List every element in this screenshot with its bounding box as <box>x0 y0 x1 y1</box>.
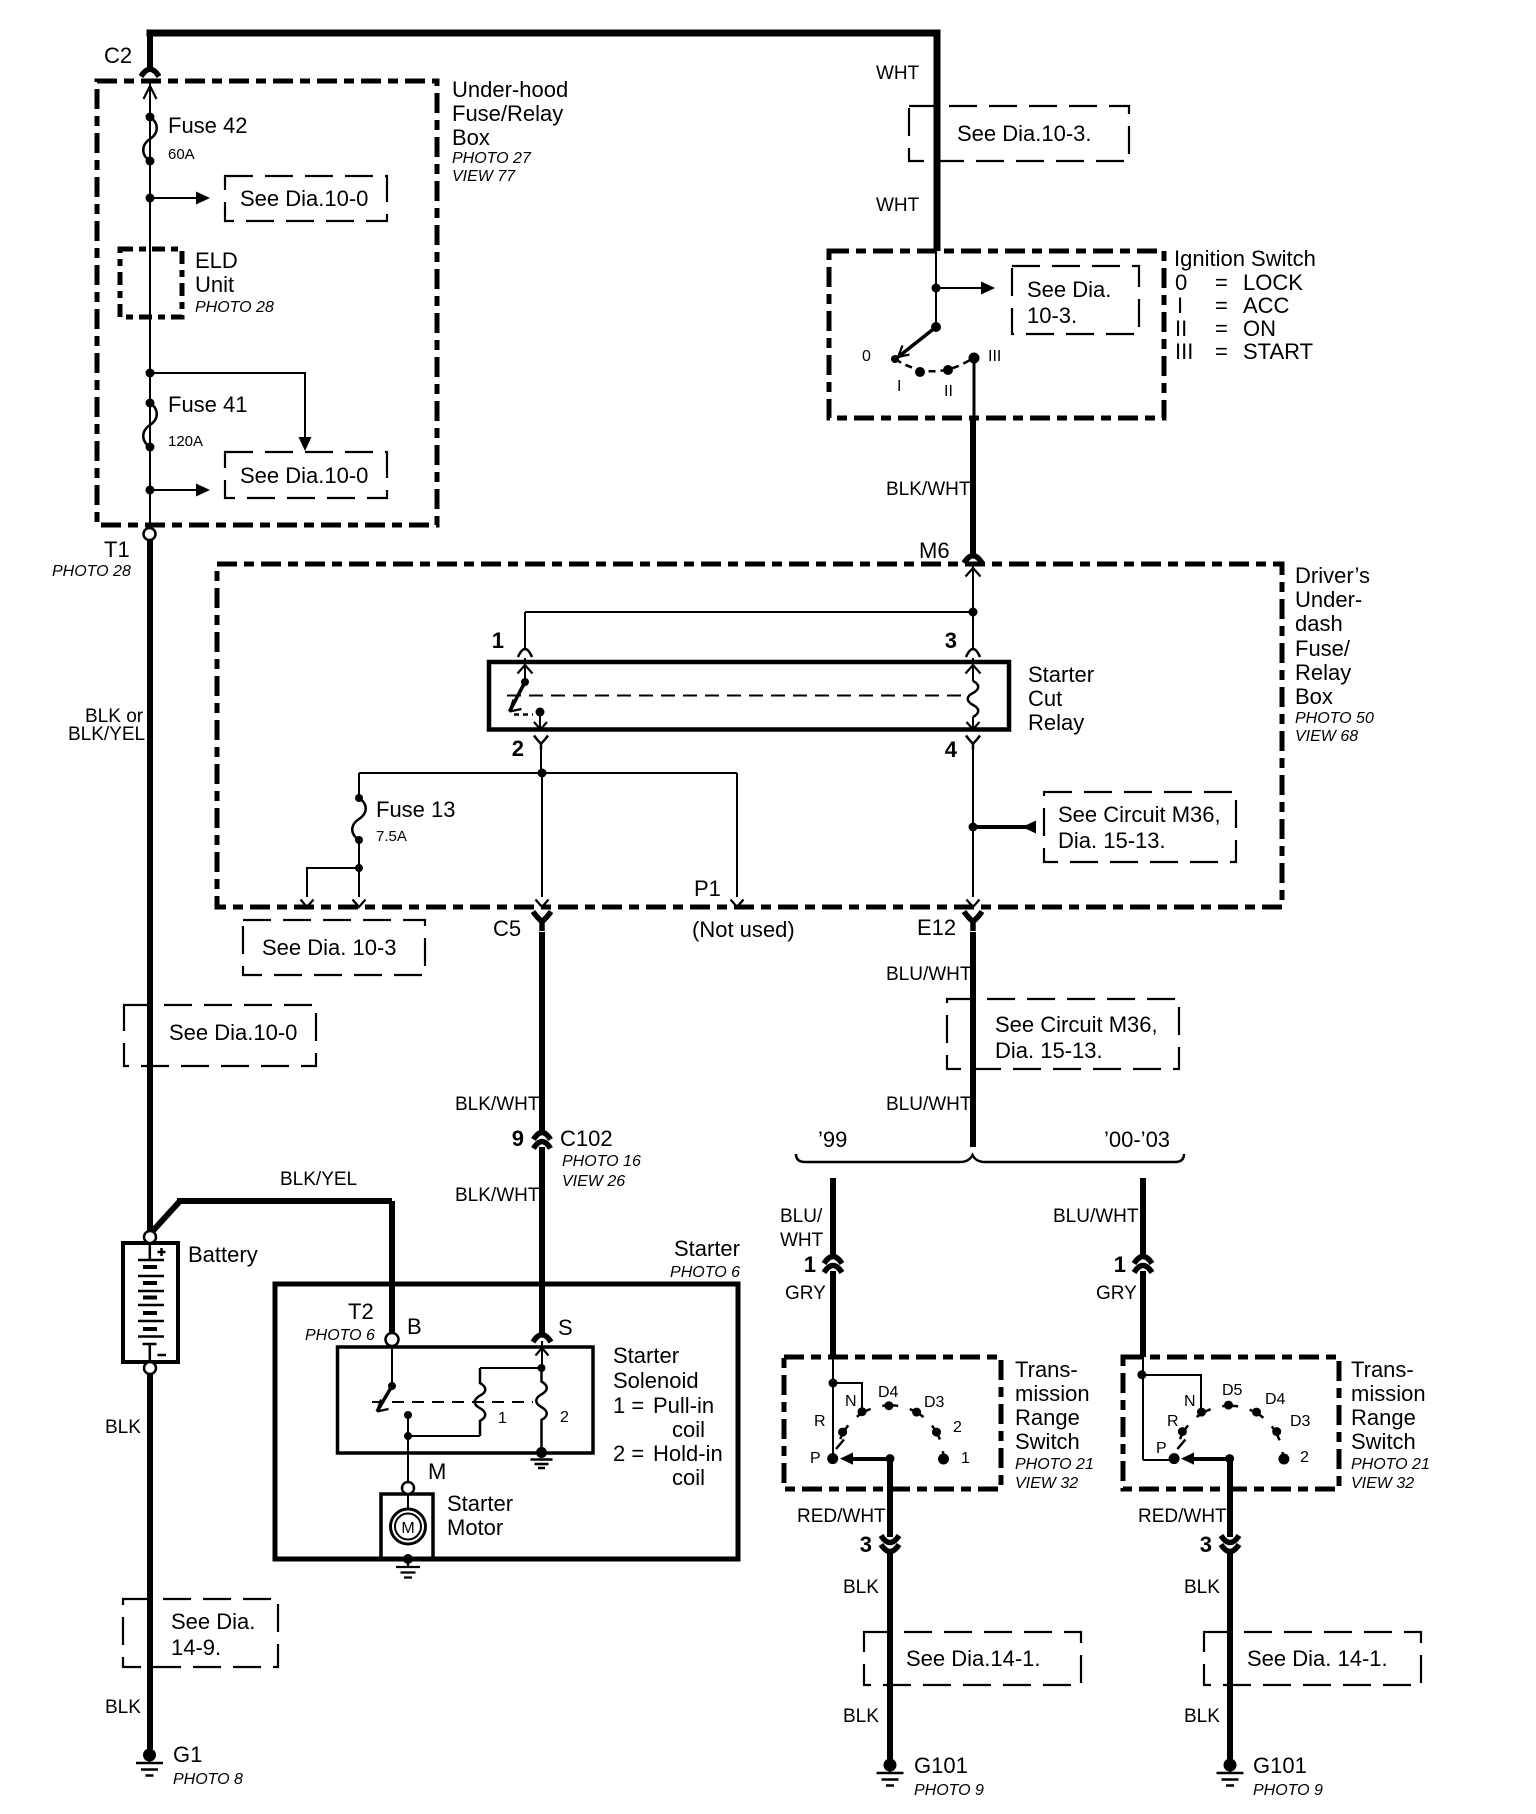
svg-text:G1: G1 <box>173 1742 202 1767</box>
svg-text:BLU/WHT: BLU/WHT <box>1053 1206 1139 1227</box>
svg-text:Unit: Unit <box>195 272 234 297</box>
svg-text:Range: Range <box>1351 1405 1416 1430</box>
svg-text:VIEW 68: VIEW 68 <box>1295 728 1358 745</box>
svg-text:Under-hood: Under-hood <box>452 77 568 102</box>
svg-text:PHOTO 9: PHOTO 9 <box>914 1782 984 1799</box>
svg-text:D3: D3 <box>1290 1413 1311 1430</box>
svg-text:Fuse 42: Fuse 42 <box>168 113 248 138</box>
svg-text:See Dia. 14-1.: See Dia. 14-1. <box>1247 1646 1388 1671</box>
svg-text:I: I <box>1177 293 1183 318</box>
svg-text:C2: C2 <box>104 43 132 68</box>
svg-text:D5: D5 <box>1222 1382 1243 1399</box>
svg-text:BLK: BLK <box>105 1417 141 1438</box>
svg-text:Fuse 41: Fuse 41 <box>168 392 248 417</box>
svg-text:9: 9 <box>512 1126 524 1151</box>
svg-text:Starter: Starter <box>674 1236 740 1261</box>
svg-text:M: M <box>401 1520 414 1537</box>
svg-text:GRY: GRY <box>1096 1283 1137 1304</box>
svg-text:Switch: Switch <box>1015 1429 1080 1454</box>
svg-text:P1: P1 <box>694 876 721 901</box>
svg-text:RED/WHT: RED/WHT <box>1138 1506 1227 1527</box>
svg-text:D4: D4 <box>878 1384 899 1401</box>
svg-text:R: R <box>814 1413 826 1430</box>
svg-text:Box: Box <box>452 125 490 150</box>
svg-text:VIEW 32: VIEW 32 <box>1015 1475 1078 1492</box>
svg-text:PHOTO 6: PHOTO 6 <box>670 1264 740 1281</box>
svg-text:PHOTO 21: PHOTO 21 <box>1015 1456 1094 1473</box>
svg-text:I: I <box>897 378 901 395</box>
svg-text:Starter: Starter <box>1028 662 1094 687</box>
svg-text:1: 1 <box>1114 1252 1126 1277</box>
svg-text:Relay: Relay <box>1295 660 1351 685</box>
svg-text:Driver’s: Driver’s <box>1295 563 1370 588</box>
svg-text:2: 2 <box>1300 1449 1309 1466</box>
svg-text:B: B <box>407 1314 422 1339</box>
svg-text:G101: G101 <box>914 1753 968 1778</box>
svg-text:See Dia.10-3.: See Dia.10-3. <box>957 121 1092 146</box>
svg-text:Starter: Starter <box>447 1491 513 1516</box>
svg-text:120A: 120A <box>168 433 203 450</box>
svg-text:BLK/WHT: BLK/WHT <box>886 479 971 500</box>
svg-text:II: II <box>1175 316 1187 341</box>
svg-text:P: P <box>1156 1440 1167 1457</box>
svg-text:Relay: Relay <box>1028 710 1084 735</box>
svg-text:Starter: Starter <box>613 1343 679 1368</box>
svg-text:See Dia.10-0: See Dia.10-0 <box>240 463 368 488</box>
svg-text:P: P <box>810 1450 821 1467</box>
svg-text:=: = <box>1215 270 1228 295</box>
svg-text:GRY: GRY <box>785 1283 826 1304</box>
svg-text:See Circuit M36,: See Circuit M36, <box>1058 802 1221 827</box>
svg-text:BLK/WHT: BLK/WHT <box>455 1185 540 1206</box>
svg-text:2 =: 2 = <box>613 1441 644 1466</box>
svg-text:D3: D3 <box>924 1394 945 1411</box>
svg-text:14-9.: 14-9. <box>171 1635 221 1660</box>
svg-text:See Dia.10-0: See Dia.10-0 <box>240 186 368 211</box>
svg-text:ACC: ACC <box>1243 293 1290 318</box>
svg-text:Cut: Cut <box>1028 686 1062 711</box>
svg-text:Fuse 13: Fuse 13 <box>376 797 456 822</box>
svg-text:BLK: BLK <box>1184 1577 1220 1598</box>
svg-text:BLU/: BLU/ <box>780 1206 823 1227</box>
svg-text:mission: mission <box>1351 1381 1426 1406</box>
svg-text:Dia. 15-13.: Dia. 15-13. <box>995 1038 1103 1063</box>
svg-text:BLK: BLK <box>105 1697 141 1718</box>
svg-text:Under-: Under- <box>1295 587 1362 612</box>
svg-text:N: N <box>845 1393 857 1410</box>
svg-text:2: 2 <box>560 1409 569 1426</box>
svg-text:PHOTO 16: PHOTO 16 <box>562 1153 641 1170</box>
svg-text:WHT: WHT <box>876 63 920 84</box>
svg-text:PHOTO 50: PHOTO 50 <box>1295 710 1374 727</box>
svg-text:2: 2 <box>512 736 524 761</box>
svg-text:VIEW 32: VIEW 32 <box>1351 1475 1414 1492</box>
svg-text:See Dia.14-1.: See Dia.14-1. <box>906 1646 1041 1671</box>
svg-text:Hold-in: Hold-in <box>653 1441 723 1466</box>
svg-text:Range: Range <box>1015 1405 1080 1430</box>
svg-text:3: 3 <box>945 628 957 653</box>
svg-text:’00-’03: ’00-’03 <box>1104 1127 1170 1152</box>
svg-text:mission: mission <box>1015 1381 1090 1406</box>
svg-text:ON: ON <box>1243 316 1276 341</box>
svg-text:See Dia.10-0: See Dia.10-0 <box>169 1020 297 1045</box>
svg-text:See Dia.: See Dia. <box>1027 277 1111 302</box>
svg-text:S: S <box>558 1315 573 1340</box>
svg-text:0: 0 <box>862 348 871 365</box>
svg-text:Trans-: Trans- <box>1015 1357 1078 1382</box>
svg-text:RED/WHT: RED/WHT <box>797 1506 886 1527</box>
svg-text:4: 4 <box>945 737 958 762</box>
svg-text:1: 1 <box>804 1252 816 1277</box>
svg-text:D4: D4 <box>1265 1391 1286 1408</box>
svg-text:BLK/WHT: BLK/WHT <box>455 1094 540 1115</box>
svg-text:7.5A: 7.5A <box>376 828 407 845</box>
svg-text:=: = <box>1215 339 1228 364</box>
svg-text:LOCK: LOCK <box>1243 270 1303 295</box>
svg-text:WHT: WHT <box>876 195 920 216</box>
svg-text:Ignition Switch: Ignition Switch <box>1174 246 1316 271</box>
svg-text:VIEW 77: VIEW 77 <box>452 168 516 185</box>
svg-text:BLK: BLK <box>843 1706 879 1727</box>
svg-text:C102: C102 <box>560 1126 613 1151</box>
svg-text:BLK: BLK <box>1184 1706 1220 1727</box>
svg-text:Solenoid: Solenoid <box>613 1368 699 1393</box>
svg-text:Fuse/Relay: Fuse/Relay <box>452 101 563 126</box>
svg-text:=: = <box>1215 316 1228 341</box>
svg-text:VIEW 26: VIEW 26 <box>562 1173 625 1190</box>
svg-text:BLU/WHT: BLU/WHT <box>886 964 972 985</box>
svg-text:Pull-in: Pull-in <box>653 1393 714 1418</box>
svg-text:1: 1 <box>498 1410 507 1427</box>
svg-text:WHT: WHT <box>780 1230 824 1251</box>
svg-text:E12: E12 <box>917 915 956 940</box>
svg-text:G101: G101 <box>1253 1753 1307 1778</box>
svg-text:ELD: ELD <box>195 248 238 273</box>
svg-text:R: R <box>1167 1413 1179 1430</box>
svg-text:10-3.: 10-3. <box>1027 303 1077 328</box>
svg-text:BLK/YEL: BLK/YEL <box>68 724 145 745</box>
svg-text:See Dia.: See Dia. <box>171 1609 255 1634</box>
svg-text:PHOTO 27: PHOTO 27 <box>452 150 532 167</box>
svg-text:PHOTO 28: PHOTO 28 <box>195 299 274 316</box>
svg-text:II: II <box>944 383 953 400</box>
svg-text:3: 3 <box>1200 1532 1212 1557</box>
svg-text:dash: dash <box>1295 611 1343 636</box>
svg-text:(Not used): (Not used) <box>692 917 795 942</box>
svg-text:See Dia. 10-3: See Dia. 10-3 <box>262 935 397 960</box>
svg-text:PHOTO 28: PHOTO 28 <box>52 563 131 580</box>
svg-text:PHOTO 9: PHOTO 9 <box>1253 1782 1323 1799</box>
svg-text:3: 3 <box>860 1532 872 1557</box>
svg-text:Dia. 15-13.: Dia. 15-13. <box>1058 828 1166 853</box>
svg-text:M6: M6 <box>919 538 950 563</box>
svg-text:BLU/WHT: BLU/WHT <box>886 1094 972 1115</box>
svg-text:See Circuit M36,: See Circuit M36, <box>995 1012 1158 1037</box>
svg-text:2: 2 <box>953 1419 962 1436</box>
svg-text:N: N <box>1184 1393 1196 1410</box>
svg-text:0: 0 <box>1175 270 1187 295</box>
svg-text:Switch: Switch <box>1351 1429 1416 1454</box>
svg-text:T2: T2 <box>348 1299 374 1324</box>
svg-text:III: III <box>1175 339 1193 364</box>
svg-text:PHOTO 21: PHOTO 21 <box>1351 1456 1430 1473</box>
svg-text:coil: coil <box>672 1465 705 1490</box>
svg-text:=: = <box>1215 293 1228 318</box>
svg-text:60A: 60A <box>168 146 195 163</box>
svg-text:C5: C5 <box>493 916 521 941</box>
svg-text:’99: ’99 <box>818 1127 847 1152</box>
svg-text:1: 1 <box>961 1450 970 1467</box>
svg-text:M: M <box>428 1459 446 1484</box>
svg-text:Box: Box <box>1295 684 1333 709</box>
svg-text:START: START <box>1243 339 1313 364</box>
svg-text:III: III <box>988 348 1001 365</box>
svg-text:Battery: Battery <box>188 1242 258 1267</box>
svg-text:coil: coil <box>672 1417 705 1442</box>
svg-text:BLK: BLK <box>843 1577 879 1598</box>
svg-text:1: 1 <box>492 628 504 653</box>
svg-text:BLK/YEL: BLK/YEL <box>280 1169 357 1190</box>
svg-text:Motor: Motor <box>447 1515 503 1540</box>
svg-text:T1: T1 <box>104 537 130 562</box>
svg-text:Trans-: Trans- <box>1351 1357 1414 1382</box>
svg-text:PHOTO 6: PHOTO 6 <box>305 1327 375 1344</box>
svg-text:PHOTO 8: PHOTO 8 <box>173 1771 243 1788</box>
svg-text:Fuse/: Fuse/ <box>1295 636 1351 661</box>
svg-text:1 =: 1 = <box>613 1393 644 1418</box>
